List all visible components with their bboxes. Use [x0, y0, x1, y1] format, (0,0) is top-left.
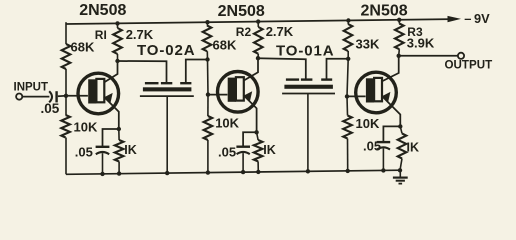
node collector Q2: [256, 56, 260, 60]
transfilter T2 bottom plate: [282, 93, 335, 95]
wire base Q1: [66, 95, 88, 97]
transfilter T2 right plate: [321, 78, 332, 80]
capacitor .05 bypass 2: [236, 147, 250, 175]
emitter wire Q3: [382, 96, 401, 127]
resistor 1K emitter 2: [254, 132, 263, 174]
svg-text:IK: IK: [407, 141, 420, 155]
transistor Q3: [356, 72, 397, 113]
svg-text:.05: .05: [218, 144, 236, 159]
capacitor .05 input: [49, 91, 56, 102]
svg-text:3.9K: 3.9K: [407, 35, 435, 50]
transfilter T2 left plate: [301, 78, 313, 80]
emitter arrow Q1: [105, 93, 113, 103]
svg-text:INPUT: INPUT: [14, 82, 49, 94]
svg-text:TO-01A: TO-01A: [276, 42, 334, 59]
wire collector node to T1: [118, 61, 167, 83]
node base Q2: [206, 92, 210, 96]
svg-text:10K: 10K: [215, 116, 239, 131]
node T1 to base wire: [205, 57, 209, 61]
transistor Q1: [78, 73, 119, 114]
resistor 68K R-bias1 upper: [62, 22, 71, 96]
node emitter Q3: [398, 124, 402, 128]
transfilter T1 crystal bar: [143, 87, 192, 91]
svg-text:2N508: 2N508: [79, 2, 126, 19]
node output: [397, 54, 401, 58]
resistor R3 3.9K: [395, 18, 404, 56]
svg-text:OUTPUT: OUTPUT: [445, 58, 493, 71]
resistor R2 2.7K: [254, 19, 263, 58]
collector wire Q3: [382, 56, 399, 82]
svg-text:68K: 68K: [71, 40, 95, 55]
output terminal: [458, 53, 464, 59]
svg-text:.05: .05: [41, 101, 60, 116]
resistor 1K emitter 3: [398, 126, 407, 172]
emitter arrow Q2: [244, 91, 252, 101]
svg-text:– 9V: – 9V: [464, 11, 490, 26]
wire 68K to base Q2: [207, 60, 210, 95]
svg-text:IK: IK: [124, 143, 137, 157]
emitter wire Q2: [243, 95, 256, 132]
resistor 33K bias3: [344, 18, 353, 59]
wire emitter branch 3: [383, 126, 400, 141]
svg-text:10K: 10K: [74, 120, 98, 135]
svg-text:68K: 68K: [213, 38, 237, 53]
svg-text:2N508: 2N508: [361, 3, 408, 20]
transfilter T2 top dash: [286, 78, 299, 80]
resistor 68K bias2: [203, 20, 212, 60]
input terminal: [16, 94, 22, 100]
wire 33K to base Q3: [347, 59, 348, 97]
wire collector Q2 to T2: [258, 58, 306, 79]
node emitter Q1: [117, 127, 121, 131]
svg-text:.05: .05: [75, 144, 93, 159]
emitter arrow Q3: [383, 92, 391, 102]
wire base Q2: [208, 94, 227, 96]
resistor 10K bias2 lower: [204, 95, 213, 175]
wire ground rail: [66, 170, 401, 174]
transfilter T1 bottom plate: [140, 95, 194, 97]
emitter wire Q1: [104, 97, 119, 129]
node base Q3: [345, 94, 349, 98]
resistor 10K R-bias1 lower: [61, 96, 70, 175]
wire base Q3: [347, 95, 366, 97]
transfilter T1 right lead: [186, 60, 208, 84]
transfilter T2 crystal bar: [284, 85, 333, 89]
resistor 1K emitter 1: [115, 129, 124, 176]
transistor Q2: [218, 72, 259, 113]
svg-text:33K: 33K: [356, 37, 380, 52]
node base Q1 junction: [64, 94, 68, 98]
svg-text:10K: 10K: [356, 116, 380, 131]
supply arrow: [448, 16, 462, 22]
node T2 right junction: [346, 57, 350, 61]
node collector Q1: [115, 59, 119, 63]
svg-text:.05: .05: [363, 138, 381, 153]
transfilter T1 left plate: [161, 82, 172, 84]
svg-text:2.7K: 2.7K: [126, 27, 154, 42]
transfilter T1 top dash: [145, 82, 159, 84]
wire output: [399, 55, 458, 57]
wire input to C-in: [22, 96, 49, 98]
resistor 10K bias3 lower: [343, 96, 352, 173]
capacitor .05 bypass 3: [377, 142, 391, 172]
transfilter T2 ground lead: [306, 94, 310, 174]
node emitter Q2: [254, 130, 258, 134]
collector wire Q2: [243, 58, 258, 81]
transfilter T2 right lead: [327, 59, 349, 80]
transfilter T1 ground lead: [165, 96, 169, 175]
resistor R1 2.7K: [113, 21, 122, 61]
transfilter T1 right plate: [180, 82, 191, 84]
svg-text:IK: IK: [263, 143, 276, 157]
wire emitter branch 2: [243, 132, 257, 146]
svg-text:R2: R2: [236, 25, 252, 39]
svg-text:TO-02A: TO-02A: [137, 42, 195, 59]
svg-text:RI: RI: [95, 28, 107, 42]
collector wire Q1: [104, 61, 118, 83]
svg-text:2N508: 2N508: [218, 3, 265, 20]
ground: [393, 170, 408, 183]
capacitor .05 bypass 1: [96, 147, 110, 176]
wire emitter branch: [103, 129, 119, 146]
wire C-in to base node: [58, 95, 66, 97]
svg-text:2.7K: 2.7K: [266, 24, 294, 39]
wire supply rail -9V: [66, 19, 452, 24]
